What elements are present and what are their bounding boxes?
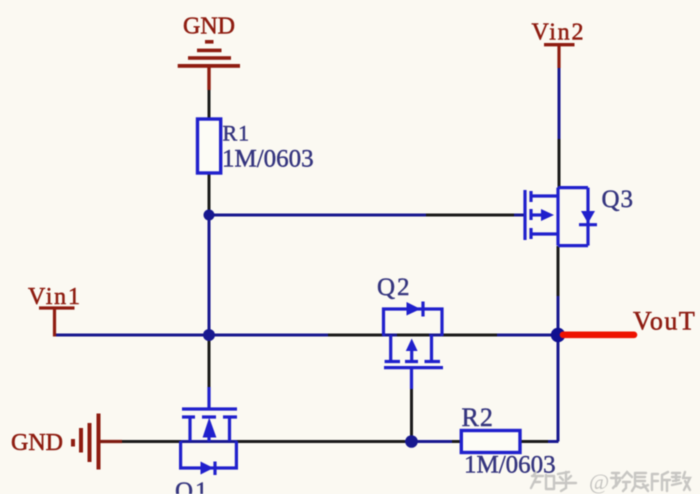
- svg-text:VouT: VouT: [633, 307, 696, 336]
- svg-text:GND: GND: [11, 430, 63, 456]
- svg-text:Q1: Q1: [175, 478, 210, 494]
- svg-text:Q2: Q2: [377, 274, 412, 301]
- svg-text:Vin2: Vin2: [532, 20, 586, 46]
- svg-text:R1: R1: [223, 121, 251, 146]
- svg-text:Q3: Q3: [602, 186, 635, 213]
- svg-text:1M/0603: 1M/0603: [464, 452, 556, 479]
- svg-text:@: @: [589, 469, 609, 494]
- svg-text:Vin1: Vin1: [28, 284, 82, 310]
- svg-text:1M/0603: 1M/0603: [222, 146, 314, 173]
- svg-text:R2: R2: [462, 403, 494, 432]
- svg-text:GND: GND: [183, 14, 235, 40]
